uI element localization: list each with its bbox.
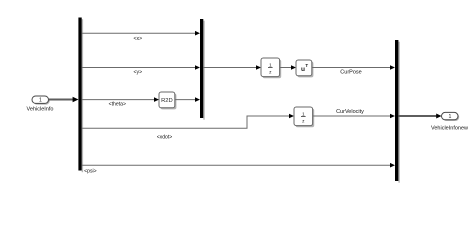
wire <y>: [82, 65, 200, 70]
outport VehicleInfonew: [442, 112, 460, 121]
wire <x>: [82, 31, 200, 36]
svg-text:1: 1: [39, 98, 42, 104]
wire mux to unit delay: [203, 65, 261, 70]
svg-text:CurPose: CurPose: [340, 70, 361, 76]
svg-text:CurVelocity: CurVelocity: [336, 109, 364, 115]
wire <psi>: [82, 163, 395, 168]
svg-text:1: 1: [448, 114, 451, 120]
svg-text:<xdot>: <xdot>: [157, 134, 173, 140]
svg-text:T: T: [305, 63, 308, 68]
wire R2D to mux: [175, 97, 200, 102]
block unit delay 1/z (velocity): [294, 107, 314, 127]
svg-text:<x>: <x>: [134, 36, 143, 42]
svg-text:VehicleInfo: VehicleInfo: [27, 106, 54, 112]
wire unit delay to transpose: [280, 65, 296, 70]
bus wire inport to demux: [49, 97, 79, 103]
svg-text:u: u: [301, 66, 305, 73]
svg-text:<y>: <y>: [134, 70, 143, 76]
svg-text:R2D: R2D: [161, 98, 173, 104]
demux bar (bus selector): [78, 18, 83, 173]
svg-text:<psi>: <psi>: [84, 168, 96, 174]
inport VehicleInfo: [32, 96, 50, 105]
wire CurPose to out mux: [312, 65, 395, 70]
wire <xdot>: [82, 114, 294, 129]
bus wire out mux to outport: [398, 114, 441, 119]
output mux bar: [395, 40, 400, 183]
wire <theta>: [82, 97, 159, 102]
block R2D (radians to degrees): [159, 92, 176, 109]
svg-text:VehicleInfonew: VehicleInfonew: [431, 125, 468, 131]
wire CurVelocity to out mux: [313, 114, 395, 119]
mux bar (pose mux): [200, 19, 205, 120]
svg-text:<theta>: <theta>: [109, 102, 126, 108]
block math function u^T (transpose): [296, 60, 313, 77]
block unit delay 1/z (pose): [261, 58, 281, 78]
